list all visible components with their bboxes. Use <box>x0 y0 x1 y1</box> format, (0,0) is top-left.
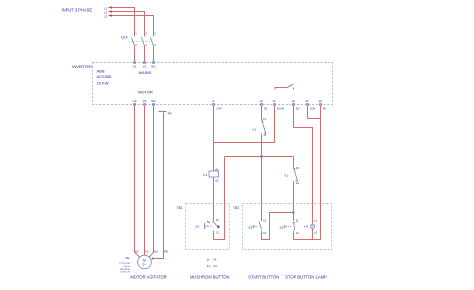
wire terminal 12 to K1 contact <box>261 106 263 120</box>
wire terminal 11 jog <box>308 106 321 119</box>
wire W2 to motor <box>149 106 153 257</box>
start button S2, pins 13/14 <box>247 219 266 235</box>
svg-text:10: 10 <box>318 99 322 103</box>
svg-text:MAINS: MAINS <box>139 70 152 75</box>
motor M1 <box>125 255 151 269</box>
wire Q1.F to V1 <box>144 46 146 61</box>
terminal W2 <box>151 99 156 106</box>
svg-text:1440 RPM: 1440 RPM <box>119 269 130 271</box>
terminal 11 (DCOM) <box>272 99 284 111</box>
svg-text:-S3: -S3 <box>279 225 284 229</box>
svg-text:MOTOR: MOTOR <box>138 90 153 95</box>
svg-text:K1: K1 <box>253 128 257 132</box>
svg-text:P 3.15 KW: P 3.15 KW <box>119 263 130 265</box>
svg-text:DCOM: DCOM <box>277 109 284 111</box>
svg-text:W1: W1 <box>153 249 158 253</box>
terminal 12 (DI1) <box>259 99 268 111</box>
junction X node at S3 top <box>292 211 294 213</box>
svg-text:A2: A2 <box>215 178 219 182</box>
terminal U1 <box>133 61 137 68</box>
terminal strip TB2 <box>243 204 332 250</box>
svg-text:W2: W2 <box>151 99 156 103</box>
breaker Q1.F pole 1, pins 1/2 <box>131 33 137 48</box>
svg-text:MUSHROM BUTTON: MUSHROM BUTTON <box>190 275 230 280</box>
wire terminal 10 riser to rail <box>320 106 322 240</box>
wire terminal 10 to lamp x1 <box>294 106 313 224</box>
svg-text:-S1: -S1 <box>195 225 200 229</box>
stop button S3, pins 11/12 <box>279 219 300 235</box>
wire L3 <box>111 16 153 37</box>
svg-text:TB2: TB2 <box>233 206 239 210</box>
svg-text:3~: 3~ <box>143 263 147 267</box>
relay contact K1 23/24 <box>284 157 299 186</box>
wire Q1.F to W1 <box>153 46 155 61</box>
svg-text:NO: NO <box>323 109 327 111</box>
svg-text:10: 10 <box>291 99 295 103</box>
terminal U2 <box>133 99 137 106</box>
mushroom button S1, pins 11/12 <box>195 218 220 235</box>
svg-text:U1: U1 <box>133 64 137 68</box>
svg-text:LAMP: LAMP <box>316 275 327 280</box>
svg-text:V1: V1 <box>145 249 149 253</box>
svg-text:U2: U2 <box>133 99 137 103</box>
svg-text:x1: x1 <box>314 219 317 223</box>
svg-text:11: 11 <box>216 218 219 222</box>
cross reference table K1 <box>207 257 220 268</box>
svg-text:L3: L3 <box>104 14 108 18</box>
wire L2 <box>111 12 144 37</box>
svg-text:-S2: -S2 <box>247 225 252 229</box>
relay coil K1, pins A1/A2 <box>203 168 219 183</box>
junction PE at motor <box>152 258 154 260</box>
node L3 <box>104 14 112 18</box>
svg-text:V2: V2 <box>143 99 147 103</box>
inverter U1 enclosure <box>93 63 333 105</box>
svg-text:STOP BUTTON: STOP BUTTON <box>285 275 314 280</box>
svg-text:PE: PE <box>168 111 172 115</box>
terminal 11 (COM) <box>305 99 315 111</box>
relay output contact inside inverter <box>275 84 294 89</box>
svg-text:MOTOR AGITATOR: MOTOR AGITATOR <box>130 275 166 280</box>
svg-text:14: 14 <box>263 133 266 137</box>
svg-text:13: 13 <box>263 117 267 121</box>
svg-text:COS 0.76: COS 0.76 <box>120 272 130 274</box>
wire S2 return loop <box>262 213 294 240</box>
terminal W1 <box>151 61 156 68</box>
wire S1 to TB1 loop <box>214 157 225 240</box>
terminal 10 (NO) <box>318 99 326 111</box>
svg-text:Q1.F: Q1.F <box>121 35 128 39</box>
svg-text:ABB: ABB <box>97 68 105 73</box>
breaker Q1.F pole 3, pins 5/6 <box>150 33 156 48</box>
svg-text:V1: V1 <box>143 64 147 68</box>
terminal V1 <box>143 61 147 68</box>
wire V2 to motor <box>144 106 146 255</box>
wire H1 node 9/11 <box>214 106 275 143</box>
wire coil K1 to S1 <box>213 177 215 221</box>
svg-text:11: 11 <box>305 99 308 103</box>
node L1 <box>104 6 112 10</box>
svg-text:COM: COM <box>310 109 315 111</box>
svg-text:W1: W1 <box>151 64 156 68</box>
node L2 <box>104 10 112 14</box>
svg-text:+24V: +24V <box>216 109 222 111</box>
svg-text:23: 23 <box>296 166 300 170</box>
svg-text:-H1: -H1 <box>303 225 308 229</box>
terminal V2 <box>143 99 147 106</box>
svg-text:K1: K1 <box>284 173 288 177</box>
ground PE tap <box>159 111 172 118</box>
wire H2 mushroom return branch <box>225 156 294 158</box>
svg-text:INPUT 3 PHASE: INPUT 3 PHASE <box>62 7 93 12</box>
svg-text:11: 11 <box>296 219 299 223</box>
svg-text:x2: x2 <box>314 231 317 235</box>
svg-text:ACS355: ACS355 <box>97 74 113 79</box>
lamp H1, pins x1/x2 <box>303 219 317 235</box>
svg-text:12: 12 <box>296 231 300 235</box>
breaker Q1.F <box>121 35 151 41</box>
svg-text:M1: M1 <box>125 256 130 260</box>
svg-text:13: 13 <box>263 219 267 223</box>
wire U2 to motor <box>135 106 140 258</box>
svg-text:12: 12 <box>259 99 263 103</box>
terminal 9 (+24V) <box>212 99 222 111</box>
svg-text:A1: A1 <box>215 168 219 172</box>
wire L1 <box>111 8 134 37</box>
svg-text:TB1: TB1 <box>177 206 183 210</box>
value label motor specs <box>119 263 130 274</box>
wire terminal 9 to coil K1 <box>213 106 215 171</box>
svg-text:24: 24 <box>296 181 300 185</box>
svg-text:15 KW: 15 KW <box>97 80 109 85</box>
svg-text:INVERTER: INVERTER <box>72 64 92 69</box>
svg-text:11: 11 <box>272 99 275 103</box>
svg-text:9: 9 <box>212 99 214 103</box>
svg-text:K1: K1 <box>203 173 207 177</box>
terminal strip TB1 <box>186 204 230 250</box>
svg-text:Prt 1a: Prt 1a <box>124 265 131 268</box>
svg-text:U1: U1 <box>135 249 139 253</box>
wire lamp x2 to rail <box>312 229 314 240</box>
svg-text:11 -- 14 --: 11 -- 14 -- <box>207 257 220 261</box>
svg-text:12: 12 <box>216 231 220 235</box>
wire Q1.F to U1 <box>134 46 136 61</box>
svg-text:14: 14 <box>263 231 267 235</box>
terminal 10 (DI2) <box>291 99 300 111</box>
wire PE to motor <box>153 112 164 259</box>
svg-text:START BUTTON: START BUTTON <box>248 275 279 280</box>
wire S3 to bottom rail <box>294 231 321 240</box>
wire K1 contact to S2 <box>261 134 263 221</box>
svg-text:21 -- 24 --: 21 -- 24 -- <box>207 264 220 268</box>
junction X node H2/S2 <box>260 155 262 157</box>
breaker Q1.F pole 2, pins 3/4 <box>141 33 147 48</box>
svg-text:PE: PE <box>164 249 168 253</box>
relay contact K1 13/14 <box>253 117 267 137</box>
wire K1 23/24 to S3 <box>293 181 295 221</box>
